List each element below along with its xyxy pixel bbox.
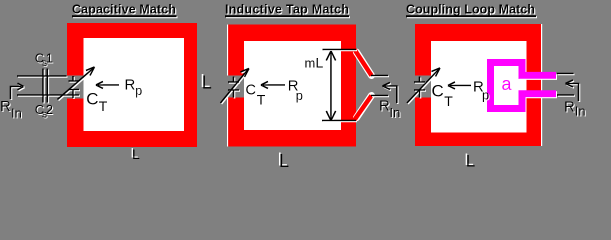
svg-text:2: 2 <box>46 102 53 117</box>
CT variable arrow (panel 2) <box>221 70 248 103</box>
red tap diagonal (bottom) panel 2 <box>354 96 372 121</box>
underline of title 1 <box>72 15 177 17</box>
loop antenna L (panel 2) <box>227 25 357 147</box>
svg-text:p: p <box>296 88 303 103</box>
capacitor CT (panel 1) <box>69 76 80 98</box>
svg-text:In: In <box>11 106 22 121</box>
CT variable arrow <box>58 69 94 100</box>
svg-text:C: C <box>86 90 98 109</box>
wire bottom (input to CT) <box>17 94 79 96</box>
panel 3 labels <box>432 79 586 119</box>
svg-text:Coupling Loop Match: Coupling Loop Match <box>406 3 535 17</box>
coupling loop top terminal <box>557 73 574 75</box>
svg-text:L: L <box>202 73 212 93</box>
panel 1 labels <box>0 51 142 121</box>
svg-text:m: m <box>305 56 316 71</box>
tap top terminal <box>371 75 388 77</box>
Rp arrow (panel 3) <box>450 85 471 87</box>
svg-text:p: p <box>135 84 142 98</box>
svg-text:In: In <box>390 105 401 120</box>
wire top (input to CT) <box>17 75 67 77</box>
svg-text:In: In <box>575 104 586 119</box>
loop antenna L (panel 1) <box>67 23 197 147</box>
capacitor CT (panel 2) <box>228 77 239 98</box>
svg-text:R: R <box>125 77 136 94</box>
svg-text:R: R <box>564 99 575 116</box>
svg-text:C: C <box>246 83 256 99</box>
red tap diagonal (top) panel 2 <box>354 49 372 76</box>
svg-text:a: a <box>502 74 513 94</box>
svg-text:T: T <box>444 93 453 109</box>
capacitor CT (panel 3) <box>414 77 425 98</box>
Rp arrow <box>98 84 119 86</box>
underline of title 3 <box>406 15 536 17</box>
mL top cap line <box>323 49 357 51</box>
underline of title 2 <box>225 15 349 17</box>
svg-text:R: R <box>379 98 390 115</box>
capacitor Cs1/Cs2 shared plates <box>42 69 44 103</box>
R_in bent arrow (panel 2) <box>385 86 397 103</box>
svg-text:1: 1 <box>46 51 53 66</box>
titles <box>72 3 535 17</box>
svg-text:R: R <box>0 98 11 115</box>
svg-text:L: L <box>466 152 475 169</box>
svg-text:Capacitive Match: Capacitive Match <box>72 3 176 17</box>
gap in loop 1 left edge <box>67 76 84 99</box>
svg-text:C: C <box>432 82 444 101</box>
R_in bent arrow (panel 3) <box>568 84 579 102</box>
Rp arrow (panel 2) <box>263 84 285 86</box>
svg-text:T: T <box>257 92 266 108</box>
svg-text:T: T <box>99 98 108 114</box>
panel 2 labels <box>246 55 401 121</box>
mL bottom cap line <box>322 120 356 122</box>
gap in loop 3 left edge <box>415 76 432 98</box>
gap in loop 2 left edge <box>227 76 245 98</box>
svg-text:L: L <box>132 146 140 162</box>
svg-text:Inductive Tap Match: Inductive Tap Match <box>225 3 349 17</box>
svg-text:L: L <box>316 55 324 71</box>
coupling loop (panel 3, magenta) <box>491 63 557 109</box>
R_in bent arrow <box>11 87 22 100</box>
svg-text:p: p <box>482 88 489 103</box>
loop antenna L (panel 3) <box>415 24 543 146</box>
mL dimension arrow <box>330 51 332 121</box>
coupling loop bottom terminal <box>557 94 574 96</box>
tap bottom terminal <box>371 95 388 97</box>
CT variable arrow (panel 3) <box>407 70 439 104</box>
svg-text:L: L <box>279 151 289 168</box>
